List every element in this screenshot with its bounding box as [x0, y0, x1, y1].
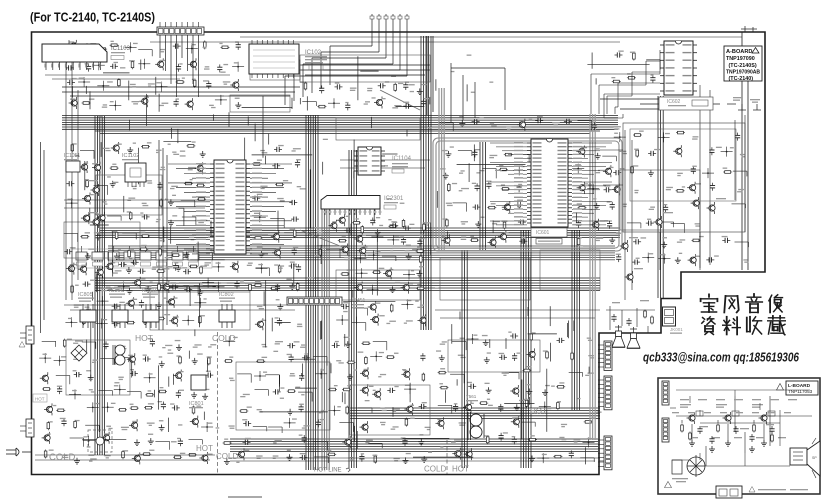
transistor	[158, 61, 164, 67]
node junction	[647, 257, 649, 259]
node value label	[479, 170, 484, 171]
resistor	[440, 387, 449, 389]
transistor	[257, 321, 263, 327]
resistor	[144, 407, 153, 409]
node value label	[128, 198, 135, 199]
ground	[136, 439, 138, 442]
wire	[438, 404, 452, 406]
node junction	[220, 99, 222, 101]
node value label	[461, 170, 465, 171]
node junction	[107, 406, 109, 408]
capacitor	[488, 181, 490, 184]
resistor	[501, 188, 510, 190]
node isolation dashed 2	[446, 440, 448, 474]
transistor	[71, 100, 77, 106]
node junction	[619, 136, 621, 138]
resistor	[578, 207, 587, 209]
capacitor	[557, 339, 560, 341]
wire	[199, 252, 213, 254]
ground	[129, 147, 131, 150]
wire	[94, 184, 108, 186]
node junction	[577, 168, 579, 170]
svg-text:TNP197090AB: TNP197090AB	[726, 69, 760, 75]
svg-text:COLD: COLD	[49, 452, 76, 463]
op-amp IC1104	[354, 147, 412, 175]
node value label	[350, 88, 357, 89]
svg-text:HOT: HOT	[530, 407, 547, 416]
ground	[445, 173, 447, 176]
node junction	[237, 66, 239, 68]
ground	[199, 289, 201, 292]
transistor	[97, 269, 103, 275]
capacitor speaker coupling	[606, 300, 655, 333]
capacitor	[277, 284, 279, 287]
resistor	[223, 442, 232, 444]
node value label	[248, 263, 253, 264]
node value label	[262, 344, 266, 345]
node value label	[420, 305, 424, 306]
wire	[85, 424, 99, 426]
svg-text:A-BOARD: A-BOARD	[726, 49, 752, 55]
transistor	[455, 451, 461, 457]
node value label	[561, 424, 567, 425]
node junction	[101, 323, 103, 325]
wire IC1103 rail	[45, 75, 230, 79]
node value label	[205, 234, 211, 235]
ground	[291, 283, 293, 286]
node junction	[228, 340, 230, 342]
resistor	[327, 453, 336, 455]
wire bus H6	[300, 65, 430, 75]
resistor	[142, 453, 151, 455]
node value label	[119, 346, 125, 347]
capacitor	[372, 218, 374, 221]
transistor	[376, 99, 382, 105]
node right block boxes	[600, 115, 745, 270]
node value label	[406, 320, 413, 321]
node junction	[130, 46, 132, 48]
node junction	[149, 377, 151, 379]
svg-text:IC2301: IC2301	[384, 196, 404, 202]
svg-text:IC451: IC451	[352, 298, 366, 304]
wire	[353, 307, 367, 309]
resistor	[86, 179, 88, 188]
capacitor	[300, 404, 302, 407]
node value label	[461, 188, 469, 189]
node value label	[502, 373, 509, 374]
resistor	[176, 81, 185, 83]
node junction	[161, 86, 163, 88]
transistor	[360, 248, 366, 254]
capacitor	[112, 323, 115, 325]
ground	[226, 458, 228, 461]
node watermark line1	[701, 294, 718, 312]
resistor	[631, 165, 633, 174]
node label HOT small	[33, 394, 47, 402]
resistor	[319, 248, 321, 257]
node value label	[103, 104, 107, 105]
wire	[452, 340, 466, 342]
node value label	[165, 345, 172, 346]
resistor	[64, 339, 66, 348]
resistor	[448, 183, 450, 192]
capacitor	[112, 305, 115, 307]
node value label	[106, 426, 111, 427]
transistor	[163, 284, 169, 290]
transistor	[94, 165, 100, 171]
ground	[289, 454, 291, 457]
capacitor	[297, 160, 299, 163]
resistor	[423, 223, 425, 232]
resistor	[160, 199, 162, 208]
resistor	[526, 399, 528, 408]
wire	[298, 391, 312, 393]
wire	[115, 357, 129, 359]
ground	[349, 374, 351, 377]
capacitor	[361, 454, 363, 457]
op-amp IC1101	[210, 160, 250, 254]
transistor	[169, 299, 175, 305]
node junction	[341, 319, 343, 321]
ground	[112, 181, 114, 184]
wire	[482, 168, 496, 170]
resistor	[249, 283, 251, 292]
capacitor	[737, 133, 739, 136]
transistor	[273, 234, 279, 240]
capacitor	[205, 374, 208, 376]
wire	[268, 426, 282, 428]
resistor	[186, 145, 195, 147]
op-amp IC805	[78, 292, 96, 328]
node A-BOARD label	[724, 46, 762, 82]
node below A-BOARD parts	[727, 97, 761, 110]
transistor Q1103	[88, 212, 99, 228]
resistor	[270, 287, 279, 289]
node value label	[275, 440, 282, 441]
connector CN right 2	[598, 376, 612, 410]
node value label	[666, 187, 673, 188]
ground	[420, 439, 422, 442]
resistor	[254, 284, 263, 286]
transistor	[693, 200, 699, 206]
node value label	[74, 304, 82, 305]
wire	[70, 437, 84, 439]
node junction	[361, 272, 363, 274]
resistor	[156, 318, 165, 320]
node LB tri	[665, 482, 672, 488]
wire bus V3	[349, 150, 357, 468]
wire	[521, 421, 535, 423]
wire bus H1 upper	[62, 116, 618, 130]
node value label	[103, 201, 107, 202]
node value label	[257, 306, 263, 307]
node watermark line2	[702, 317, 715, 335]
ground	[677, 257, 679, 260]
wire	[515, 154, 529, 156]
resistor	[438, 372, 447, 374]
node value label	[147, 423, 155, 424]
wire	[122, 232, 136, 234]
resistor	[71, 285, 73, 294]
node value label	[303, 425, 309, 426]
node pin labels	[74, 47, 604, 463]
node value label	[506, 126, 511, 127]
wire bus diag mid	[300, 90, 420, 250]
resistor	[504, 221, 506, 230]
node label HOT LINE	[314, 468, 350, 474]
node value label	[693, 136, 699, 137]
op-amp IC801	[189, 375, 206, 408]
resistor	[82, 102, 91, 104]
capacitor	[500, 404, 502, 407]
wire	[255, 389, 269, 391]
transistor	[342, 246, 348, 252]
capacitor	[646, 222, 649, 224]
capacitor	[472, 121, 475, 123]
node value label	[260, 150, 265, 151]
resistor	[287, 390, 296, 392]
capacitor	[179, 438, 181, 441]
transistor	[579, 185, 585, 191]
ground	[279, 304, 281, 307]
ground	[477, 221, 479, 224]
ground	[129, 288, 131, 291]
ground	[170, 220, 172, 223]
node junction	[588, 442, 590, 444]
wire	[373, 341, 387, 343]
node junction	[289, 422, 291, 424]
ground	[73, 165, 75, 168]
resistor	[386, 356, 395, 358]
wire bus right top	[600, 99, 720, 109]
node value label	[261, 285, 265, 286]
transistor	[176, 372, 182, 378]
transistor	[331, 223, 337, 229]
transistor	[386, 270, 392, 276]
transistor	[375, 391, 381, 397]
node value label	[189, 237, 194, 238]
node value label	[297, 324, 302, 325]
node value label	[260, 186, 267, 187]
ground	[423, 456, 425, 459]
capacitor	[712, 183, 714, 186]
transistor	[84, 195, 90, 201]
wire	[339, 422, 353, 424]
node value label	[321, 410, 325, 411]
node value label	[132, 186, 137, 187]
resistor	[194, 79, 196, 88]
resistor	[522, 370, 531, 372]
resistor	[546, 350, 548, 359]
capacitor	[105, 341, 107, 344]
svg-text:SP: SP	[812, 456, 817, 460]
connector left edge 1	[19, 326, 34, 347]
transistor	[129, 356, 135, 362]
capacitor	[499, 356, 502, 358]
transistor	[135, 280, 141, 286]
wire bottom rails	[35, 455, 600, 461]
capacitor	[648, 152, 651, 154]
wire	[253, 426, 267, 428]
node value label	[210, 344, 216, 345]
resistor	[420, 255, 422, 264]
resistor	[347, 361, 356, 363]
transistor	[190, 61, 196, 67]
node value label	[297, 186, 301, 187]
resistor	[141, 146, 150, 148]
capacitor	[347, 102, 349, 105]
node value label	[162, 103, 169, 104]
capacitor	[570, 450, 572, 453]
capacitor	[344, 229, 347, 231]
capacitor	[613, 172, 616, 174]
capacitor	[468, 385, 471, 387]
capacitor	[618, 254, 620, 257]
node value label	[392, 408, 400, 409]
transistor	[232, 264, 238, 270]
resistor	[159, 248, 161, 257]
capacitor	[455, 404, 457, 407]
transistor	[192, 419, 198, 425]
node value label	[380, 374, 386, 375]
transistor Q1104	[88, 180, 99, 196]
transistor	[362, 424, 368, 430]
resistor	[557, 401, 559, 410]
resistor	[391, 304, 393, 313]
svg-text:IC807: IC807	[142, 288, 157, 294]
ground	[485, 339, 487, 342]
svg-text:T561: T561	[466, 394, 477, 399]
node value label	[257, 409, 262, 410]
node value label	[461, 237, 466, 238]
node value label	[366, 440, 373, 441]
wire	[181, 199, 195, 201]
transistor	[444, 237, 450, 243]
capacitor	[403, 227, 406, 229]
node value label	[425, 427, 431, 428]
capacitor	[405, 82, 407, 85]
transistor	[44, 435, 50, 441]
resistor	[189, 265, 198, 267]
wire	[313, 356, 327, 358]
capacitor	[279, 318, 281, 321]
node IC601 pin labels	[514, 142, 582, 225]
transistor	[362, 387, 368, 393]
resistor	[130, 407, 139, 409]
svg-text:(TC-2140S): (TC-2140S)	[729, 63, 757, 69]
resistor	[446, 218, 448, 227]
resistor	[676, 132, 685, 134]
resistor	[110, 167, 119, 169]
node value label	[695, 223, 700, 224]
node value label	[442, 341, 447, 342]
wire staircase CN2	[285, 32, 407, 105]
ground	[408, 253, 410, 256]
resistor	[305, 82, 307, 91]
node value label	[588, 355, 594, 356]
ground	[237, 102, 239, 105]
svg-text:HOT: HOT	[452, 465, 469, 474]
resistor	[193, 406, 195, 415]
node value label	[587, 338, 591, 339]
wire	[127, 391, 141, 393]
resistor	[224, 360, 233, 362]
node junction	[59, 360, 61, 362]
node junction	[199, 302, 201, 304]
transistor	[403, 285, 409, 291]
transistor Q552	[716, 404, 739, 446]
wire	[64, 233, 78, 235]
node value label	[458, 355, 464, 356]
capacitor	[173, 45, 176, 47]
node value label	[229, 378, 233, 379]
connector CN right 3	[598, 436, 612, 470]
node value label	[194, 344, 201, 345]
node junction	[333, 102, 335, 104]
capacitor	[404, 438, 406, 441]
capacitor	[63, 418, 65, 421]
wire	[382, 255, 396, 257]
svg-text:COLD: COLD	[424, 465, 446, 474]
wire	[314, 441, 328, 443]
wire	[82, 341, 96, 343]
wire staircase IC602	[591, 50, 660, 118]
ground	[144, 318, 146, 321]
node value label	[375, 250, 381, 251]
resistor	[145, 394, 154, 396]
capacitor	[291, 218, 294, 220]
node junction	[320, 373, 322, 375]
transistor Q551	[680, 404, 703, 446]
node value label	[316, 230, 321, 231]
connector JK001	[663, 307, 684, 334]
node junction	[544, 406, 546, 408]
capacitor	[289, 202, 292, 204]
capacitor	[513, 437, 515, 440]
capacitor	[615, 54, 618, 56]
svg-text:IC1103: IC1103	[111, 46, 131, 52]
node value label	[490, 155, 498, 156]
wire	[314, 456, 328, 458]
capacitor	[321, 85, 323, 88]
transistor	[357, 284, 363, 290]
svg-text:HOT: HOT	[196, 444, 213, 453]
node junction	[123, 286, 125, 288]
wire	[660, 221, 674, 223]
node value label	[574, 439, 581, 440]
resistor	[636, 149, 638, 158]
ground	[186, 252, 188, 255]
resistor	[132, 60, 134, 69]
node IC1101 pin labels	[196, 163, 262, 254]
node value label	[171, 186, 178, 187]
resistor	[499, 169, 508, 171]
node LB note	[749, 487, 808, 493]
svg-text:HOT LINE: HOT LINE	[314, 468, 342, 474]
node junction	[373, 254, 375, 256]
capacitor	[178, 64, 180, 67]
capacitor	[208, 81, 210, 84]
ground	[531, 456, 533, 459]
transformer T561 flyback	[466, 394, 484, 440]
capacitor	[243, 441, 246, 443]
node value label	[740, 154, 745, 155]
capacitor	[67, 81, 70, 83]
node value label	[156, 219, 160, 220]
ground	[419, 88, 421, 91]
ground	[193, 392, 195, 395]
wire	[326, 248, 340, 250]
